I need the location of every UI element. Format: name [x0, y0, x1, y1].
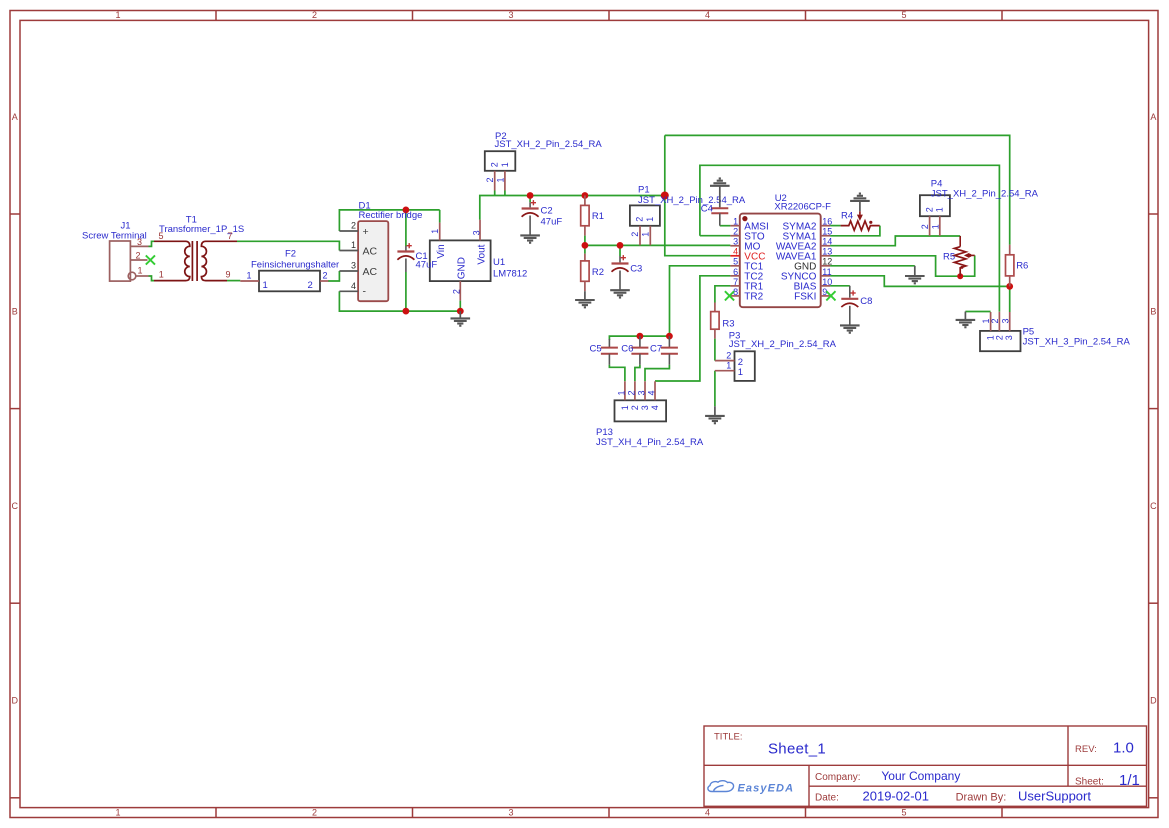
svg-text:AC: AC [363, 245, 378, 257]
svg-text:REV:: REV: [1075, 744, 1097, 755]
wire top loop to R6 [665, 135, 1010, 244]
wire T1.7 to D1.1 [237, 241, 339, 250]
svg-text:4: 4 [650, 405, 660, 410]
svg-text:4: 4 [705, 808, 710, 818]
junction Vout bus / C2 [527, 192, 534, 199]
svg-text:C: C [1150, 501, 1157, 511]
svg-text:C7: C7 [650, 344, 662, 355]
svg-text:Vout: Vout [476, 244, 487, 264]
wire GND pin12 [830, 265, 915, 267]
svg-text:9: 9 [226, 270, 231, 280]
wire VCC riser [665, 135, 731, 255]
svg-text:4: 4 [646, 390, 656, 395]
wire D1.4 ground bus [339, 291, 460, 311]
svg-text:1: 1 [645, 217, 655, 222]
junction R6 bottom / SYNCO / P5.3 [1006, 283, 1013, 290]
wire R6 bottom to P5.3 [1009, 286, 1011, 312]
svg-text:15: 15 [822, 227, 832, 237]
wire R5 wiper return [960, 255, 975, 276]
svg-text:C: C [12, 501, 19, 511]
ground at C3 [610, 290, 630, 297]
connector J1 Screw Terminal [110, 241, 131, 281]
svg-text:1: 1 [115, 808, 120, 818]
wire P2 pin2 [494, 191, 496, 196]
svg-text:47uF: 47uF [541, 217, 563, 228]
svg-text:1: 1 [616, 390, 626, 395]
svg-text:1: 1 [430, 229, 440, 234]
wire STO stub run [700, 235, 731, 237]
capacitor C6 [639, 336, 641, 348]
svg-text:Drawn By:: Drawn By: [956, 791, 1007, 803]
junction bus2 / R2 [582, 242, 589, 249]
svg-text:6: 6 [733, 267, 738, 277]
svg-text:D: D [12, 696, 19, 706]
svg-text:U1: U1 [493, 257, 505, 268]
svg-text:JST_XH_2_Pin_2.54_RA: JST_XH_2_Pin_2.54_RA [638, 195, 746, 206]
svg-text:5: 5 [901, 808, 906, 818]
potentiometer R5 [959, 236, 961, 247]
svg-text:2: 2 [733, 227, 738, 237]
wire F2.2 to D1.3 [328, 271, 339, 281]
wire C6 to P13.2 [635, 365, 640, 382]
capacitor C4 [711, 207, 728, 209]
svg-text:4: 4 [351, 281, 356, 291]
junction Vout bus / R1 [582, 192, 589, 199]
resistor R1 [584, 196, 586, 206]
wire C4 to AMSI [720, 225, 731, 227]
inverted ground above R4 [850, 194, 870, 201]
junction D1 top / C1 [403, 207, 410, 214]
svg-text:10: 10 [822, 277, 832, 287]
J1 pin 2 [130, 259, 147, 261]
svg-text:1: 1 [263, 280, 268, 291]
svg-text:3: 3 [640, 405, 650, 410]
svg-text:1: 1 [930, 224, 940, 229]
U2 pin 7 TR1 [730, 285, 739, 287]
svg-text:1: 1 [500, 162, 510, 167]
IC U2 XR2206CP-F [740, 214, 821, 308]
connector P5 JST_XH_3_Pin [980, 331, 1021, 351]
capacitor C8 [849, 286, 851, 298]
ground at U1 pin2 [459, 311, 461, 318]
svg-text:3: 3 [508, 808, 513, 818]
svg-text:R6: R6 [1016, 260, 1028, 271]
F2 pin 1 stub [240, 280, 259, 282]
svg-text:2: 2 [485, 177, 495, 182]
resistor R2 [584, 254, 586, 261]
svg-text:JST_XH_3_Pin_2.54_RA: JST_XH_3_Pin_2.54_RA [1023, 337, 1131, 348]
svg-text:Feinsicherungshalter: Feinsicherungshalter [251, 259, 339, 270]
wire WAVEA2 to R5 top [830, 236, 960, 246]
svg-text:1: 1 [641, 232, 651, 237]
rectifier bridge D1 [358, 221, 388, 301]
svg-text:FSKI: FSKI [794, 292, 816, 303]
U2 pin 1 AMSI [730, 225, 739, 227]
wire C5 to P13.1 [609, 365, 625, 382]
svg-text:3: 3 [1000, 318, 1010, 323]
svg-text:C3: C3 [630, 264, 642, 275]
title block [704, 726, 1147, 806]
junction cap bus / C7 [666, 333, 673, 340]
wire C1 bottom [405, 272, 407, 311]
svg-text:1: 1 [495, 177, 505, 182]
wire drop to U1 pin1 [439, 210, 441, 223]
svg-text:A: A [1150, 112, 1156, 122]
svg-text:7: 7 [733, 277, 738, 287]
svg-text:Sheet:: Sheet: [1075, 777, 1104, 788]
wire bus to U2 MO [585, 244, 731, 246]
T1 core [191, 241, 193, 281]
svg-text:13: 13 [822, 247, 832, 257]
svg-text:C4: C4 [701, 203, 713, 214]
svg-text:D: D [1150, 696, 1157, 706]
junction cap bus / C6 [637, 333, 644, 340]
ground at U2 pin 12 [914, 266, 916, 276]
P1 pin stubs [639, 226, 641, 246]
resistor R6 [1009, 245, 1011, 255]
ground at R2 [584, 291, 586, 300]
wire TR1 to R3 [715, 286, 731, 303]
EasyEDA logo [708, 781, 734, 792]
U2 pin 6 TC2 [730, 275, 739, 277]
wire R3 to P3.2 [714, 339, 716, 361]
svg-text:2: 2 [308, 280, 313, 291]
svg-text:B: B [1150, 306, 1156, 316]
svg-text:47uF: 47uF [416, 260, 438, 271]
no-connect X on J1 pin 2 [146, 255, 155, 264]
wire P2 pin1 [504, 191, 506, 196]
U1 pin 1 stub [439, 223, 441, 241]
svg-text:3: 3 [351, 261, 356, 271]
svg-text:11: 11 [822, 267, 831, 277]
potentiometer R4 [859, 211, 861, 215]
svg-text:1: 1 [726, 361, 731, 371]
svg-text:Rectifier bridge: Rectifier bridge [359, 210, 423, 221]
J1 pin 1 [128, 272, 136, 280]
U2 pin 8 TR2 [730, 295, 739, 297]
ground at C8 [840, 325, 860, 332]
svg-text:3: 3 [1004, 335, 1014, 340]
svg-text:5: 5 [159, 231, 164, 241]
T1 secondary winding [201, 241, 237, 280]
ground at P3 [714, 406, 716, 416]
svg-text:1: 1 [351, 240, 356, 250]
svg-text:+: + [363, 226, 369, 238]
svg-text:Company:: Company: [815, 772, 861, 783]
capacitor C3 [619, 256, 621, 262]
P3 pin stubs [715, 360, 735, 362]
svg-text:JST_XH_4_Pin_2.54_RA: JST_XH_4_Pin_2.54_RA [596, 437, 704, 448]
svg-text:1: 1 [138, 266, 143, 276]
svg-text:B: B [12, 306, 18, 316]
svg-text:2: 2 [136, 251, 141, 261]
svg-text:Vin: Vin [436, 244, 447, 258]
U2 pin 12 GND [821, 265, 830, 267]
svg-text:3: 3 [508, 10, 513, 20]
svg-text:Your Company: Your Company [881, 769, 960, 783]
F2 pin 2 stub [320, 280, 328, 282]
resistor R3 [714, 303, 716, 312]
capacitor C1 47uF [405, 246, 407, 251]
svg-text:2: 2 [995, 335, 1005, 340]
svg-text:2: 2 [626, 390, 636, 395]
svg-text:R4: R4 [841, 211, 853, 222]
svg-text:R5: R5 [943, 251, 955, 262]
wire C3 top [619, 245, 621, 256]
svg-text:2: 2 [726, 350, 731, 360]
U1 pin 2 stub [459, 281, 461, 301]
junction R5 bottom [957, 273, 963, 279]
wire SYNCO to R6 bottom [830, 276, 1010, 287]
svg-text:2: 2 [630, 405, 640, 410]
capacitor C5 [608, 339, 610, 348]
wire BIAS to C8 [830, 285, 850, 287]
ground at P5 [964, 312, 966, 320]
P5 pin stubs [990, 312, 992, 331]
U2 pin 11 SYNCO [821, 275, 830, 277]
U2 pin 10 BIAS [821, 285, 830, 287]
svg-text:JST_XH_2_Pin_2.54_RA: JST_XH_2_Pin_2.54_RA [931, 189, 1039, 200]
P13 pin stubs [624, 381, 626, 400]
svg-text:A: A [12, 112, 18, 122]
U2 pin 2 STO [730, 235, 739, 237]
wire J1.1 to T1.1 [149, 276, 155, 281]
svg-text:2: 2 [630, 232, 640, 237]
svg-text:2: 2 [323, 271, 328, 281]
wire Vout bus [480, 196, 665, 220]
junction ground bus / C1 [403, 308, 410, 315]
wire ground to P5.1 [965, 311, 990, 313]
junction bus2 / C3 [617, 242, 624, 249]
U2 pin 15 SYMA1 [821, 235, 830, 237]
svg-text:4: 4 [705, 10, 710, 20]
svg-text:2: 2 [635, 217, 645, 222]
svg-text:R2: R2 [592, 267, 604, 278]
wire C2 top [529, 196, 531, 203]
U2 pin 16 SYMA2 [821, 225, 830, 227]
capacitor C7 [668, 336, 670, 348]
capacitor C2 47uF [529, 202, 531, 207]
wire TC2 to P13.4 [655, 276, 730, 381]
connector P2 JST_XH_2_Pin [485, 151, 516, 171]
wire SYMA2 to R4 [830, 225, 841, 227]
svg-text:LM7812: LM7812 [493, 268, 527, 279]
svg-text:UserSupport: UserSupport [1018, 789, 1091, 804]
ground at C2 [520, 235, 540, 242]
connector P3 JST_XH_2_Pin [735, 351, 755, 381]
svg-text:2: 2 [990, 318, 1000, 323]
connector P4 JST_XH_2_Pin [920, 195, 950, 216]
junction ground bus / U1 GND [457, 308, 464, 315]
svg-text:1: 1 [620, 405, 630, 410]
svg-text:2019-02-01: 2019-02-01 [863, 789, 930, 804]
svg-text:TR2: TR2 [744, 292, 763, 303]
U2 pin 3 MO [730, 245, 739, 247]
svg-text:3: 3 [733, 237, 738, 247]
svg-text:Date:: Date: [815, 792, 839, 803]
regulator U1 LM7812 [430, 240, 491, 281]
svg-text:2: 2 [451, 289, 461, 294]
U2 pin 14 WAVEA2 [821, 245, 830, 247]
svg-text:JST_XH_2_Pin_2.54_RA: JST_XH_2_Pin_2.54_RA [729, 339, 837, 350]
wire R1 bottom [584, 236, 586, 246]
svg-text:Sheet_1: Sheet_1 [768, 741, 826, 758]
svg-text:AC: AC [363, 266, 378, 278]
wire WAVEA1 to R5 bottom [830, 256, 960, 276]
svg-text:14: 14 [822, 237, 832, 247]
wire capacitor bus C5-C7 [609, 336, 669, 340]
svg-text:C6: C6 [621, 344, 633, 355]
svg-text:R3: R3 [722, 319, 734, 330]
svg-text:R1: R1 [592, 211, 604, 222]
junction Vout bus / VCC riser [661, 192, 669, 200]
svg-text:4: 4 [733, 247, 738, 257]
wire T1.9 to F2.1 [227, 280, 240, 282]
D1 pin stubs [339, 230, 358, 232]
svg-text:3: 3 [471, 230, 481, 235]
wire R2 top [584, 245, 586, 253]
connector P1 JST_XH_2_Pin [630, 205, 660, 225]
svg-text:-: - [363, 285, 367, 297]
wire TC1 to C7 [670, 266, 731, 336]
svg-text:2: 2 [924, 207, 934, 212]
svg-text:F2: F2 [285, 249, 296, 260]
svg-text:1: 1 [935, 207, 945, 212]
svg-text:16: 16 [822, 217, 832, 227]
svg-text:JST_XH_2_Pin_2.54_RA: JST_XH_2_Pin_2.54_RA [495, 139, 603, 150]
svg-text:1: 1 [733, 217, 738, 227]
svg-text:1: 1 [738, 367, 743, 378]
svg-text:5: 5 [733, 257, 738, 267]
wire J1.3 to T1.5 [149, 241, 155, 246]
wire P3.1 to ground [714, 371, 716, 407]
svg-text:2: 2 [312, 808, 317, 818]
wire loop STO to P5.2 [700, 165, 1000, 311]
svg-text:2: 2 [920, 224, 930, 229]
wire D1.2 to U1 Vin (top) [339, 210, 439, 231]
J1 pin 3 [130, 245, 148, 247]
svg-text:3: 3 [636, 390, 646, 395]
wire C1 top [405, 210, 407, 246]
wire U1 pin2 to ground bus [459, 301, 461, 312]
inverted ground above C4 [710, 178, 730, 185]
U1 pin 3 stub [479, 220, 481, 241]
no-connect X on FSKI [826, 291, 835, 300]
no-connect X on TR2 [725, 291, 734, 300]
svg-text:1.0: 1.0 [1113, 740, 1134, 757]
svg-text:5: 5 [901, 10, 906, 20]
svg-text:7: 7 [228, 231, 233, 241]
fuse holder F2 [259, 271, 320, 292]
svg-text:EasyEDA: EasyEDA [738, 783, 795, 795]
svg-text:1/1: 1/1 [1119, 772, 1140, 789]
svg-text:TITLE:: TITLE: [714, 731, 743, 742]
svg-text:12: 12 [822, 257, 832, 267]
P2 pin stubs [494, 171, 496, 191]
U2 pin 5 TC1 [730, 265, 739, 267]
U2 pin 4 VCC [730, 255, 739, 257]
P4 pin stubs [929, 216, 931, 236]
svg-text:2: 2 [312, 10, 317, 20]
svg-text:C8: C8 [860, 296, 872, 307]
U2 pin 13 WAVEA1 [821, 255, 830, 257]
svg-text:3: 3 [137, 237, 142, 247]
svg-text:C5: C5 [590, 344, 602, 355]
svg-text:1: 1 [247, 271, 252, 281]
svg-text:1: 1 [115, 10, 120, 20]
connector P13 JST_XH_4_Pin [615, 400, 667, 421]
transformer T1 primary winding [154, 241, 190, 280]
svg-text:XR2206CP-F: XR2206CP-F [774, 202, 831, 213]
svg-text:1: 1 [159, 270, 164, 280]
svg-text:C2: C2 [541, 206, 553, 217]
svg-text:2: 2 [351, 221, 356, 231]
svg-text:2: 2 [489, 162, 499, 167]
wire R4 return to SYMA1 [830, 226, 880, 236]
U2 pin 9 FSKI [821, 295, 830, 297]
svg-text:GND: GND [457, 257, 468, 279]
wire C7 to P13.3 [645, 365, 669, 382]
